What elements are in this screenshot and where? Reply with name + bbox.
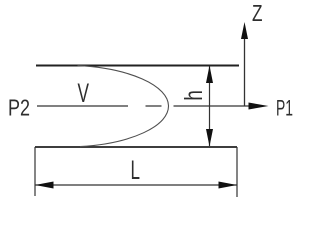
h dimension bottom arrowhead (206, 129, 213, 147)
centerline short dash (146, 105, 162, 107)
h dimension top arrowhead (206, 66, 213, 84)
Z axis arrowhead (241, 22, 248, 39)
svg-text:L: L (131, 155, 141, 185)
Z axis line (244, 38, 246, 106)
L dimension left arrowhead (35, 182, 54, 189)
centerline long dash right (174, 105, 251, 107)
arrow P1 direction (249, 103, 269, 110)
svg-text:P2: P2 (8, 95, 30, 121)
svg-text:P1: P1 (276, 96, 293, 121)
L dimension right arrowhead (219, 182, 238, 189)
centerline long dash left (37, 105, 128, 107)
svg-text:h: h (180, 90, 208, 101)
h dimension line (209, 66, 211, 146)
svg-text:Z: Z (252, 0, 263, 26)
svg-text:V: V (78, 78, 90, 108)
top plate line (36, 65, 239, 67)
bottom plate right edge / extension line (236, 147, 238, 197)
velocity profile curve (half ellipse) (78, 66, 169, 147)
bottom plate top edge (35, 146, 237, 148)
bottom plate left edge / extension line (34, 147, 36, 196)
L dimension line (35, 184, 237, 186)
